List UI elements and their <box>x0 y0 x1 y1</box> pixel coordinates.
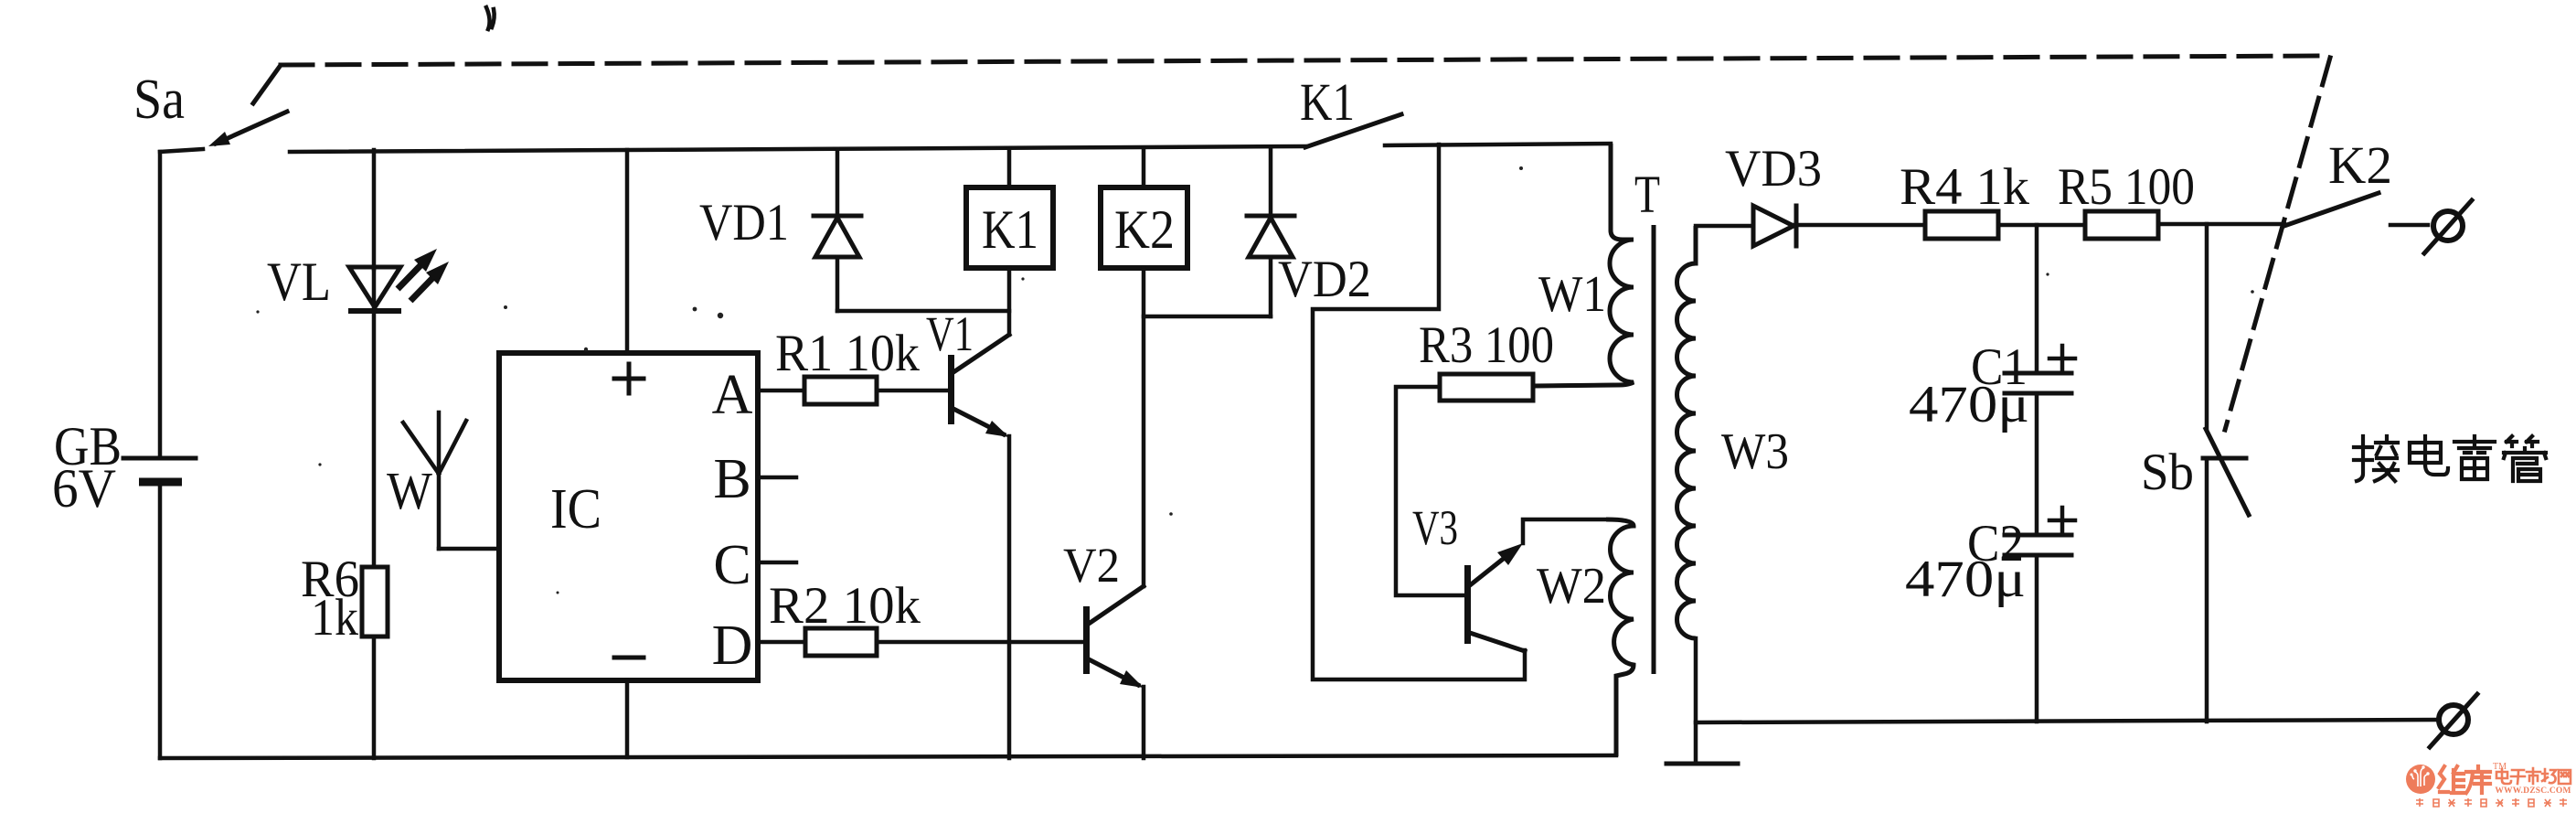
svg-text:K1: K1 <box>1300 72 1355 132</box>
winding W1 <box>1533 144 1634 386</box>
winding W3 <box>1666 226 1789 764</box>
switch Sa <box>133 69 287 152</box>
wire VD1 to K1 coil <box>837 309 1009 314</box>
label 接电雷管 (connect electric detonator) <box>2354 436 2546 481</box>
svg-text:WWW.DZSC.COM: WWW.DZSC.COM <box>2495 786 2571 796</box>
svg-text:W2: W2 <box>1537 558 1606 615</box>
IC U1 box <box>499 150 796 757</box>
relay coil K2 <box>1101 148 1271 586</box>
svg-text:A: A <box>712 364 753 426</box>
svg-text:D: D <box>712 615 753 677</box>
diode VD3 <box>1696 140 1925 246</box>
resistor R4 1k <box>1900 158 2085 239</box>
pin C stub <box>758 561 796 565</box>
svg-text:K1: K1 <box>982 199 1038 260</box>
resistor R3 100 <box>1396 316 1613 595</box>
svg-text:R5 100: R5 100 <box>2058 158 2195 216</box>
switch K1 contact <box>1300 72 1611 147</box>
transistor V3 <box>1412 500 1606 651</box>
diode VD1 <box>699 149 1009 311</box>
svg-text:1k: 1k <box>311 589 358 647</box>
svg-text:TM: TM <box>2493 762 2507 772</box>
capacitor C1 470u <box>1909 225 2075 535</box>
svg-text:IC: IC <box>550 478 601 540</box>
svg-text:R2 10k: R2 10k <box>769 577 921 635</box>
wire: bottom rail right <box>1696 720 2437 722</box>
relay coil K1 <box>966 148 1053 335</box>
terminal (bottom output) <box>2430 694 2477 747</box>
scan specks <box>256 166 2253 594</box>
battery GB <box>52 152 196 758</box>
LED VL <box>267 150 449 567</box>
resistor R5 100 <box>2058 158 2284 239</box>
antenna W <box>387 412 499 549</box>
switch K2 contact <box>2284 135 2428 226</box>
svg-text:470μ: 470μ <box>1909 376 2029 433</box>
dashed linkage wire <box>253 56 2330 430</box>
wire: bottom bus left <box>160 755 1616 758</box>
svg-text:R3 100: R3 100 <box>1419 316 1554 374</box>
svg-text:C: C <box>713 534 750 596</box>
wire K2 coil to VD2 <box>1144 315 1271 319</box>
svg-text:VD3: VD3 <box>1725 140 1822 198</box>
svg-text:VL: VL <box>267 251 331 312</box>
svg-text:R4 1k: R4 1k <box>1900 158 2030 216</box>
svg-text:B: B <box>713 448 750 510</box>
wire: main positive bus <box>290 146 1305 152</box>
svg-text:W1: W1 <box>1538 266 1606 323</box>
scan speck <box>486 7 495 29</box>
winding W2 <box>1537 519 1634 756</box>
transistor V2 <box>1063 538 1144 758</box>
svg-text:T: T <box>1634 165 1660 224</box>
svg-text:V3: V3 <box>1412 500 1458 555</box>
transistor V1 <box>926 306 1009 758</box>
switch Sb <box>2141 224 2249 722</box>
svg-text:K2: K2 <box>1114 199 1175 260</box>
watermark 电子市场网 <box>2496 768 2571 784</box>
svg-text:V1: V1 <box>926 306 974 361</box>
svg-text:Sa: Sa <box>133 69 185 131</box>
watermark 专业电子元器件交易网站 <box>2416 798 2567 807</box>
svg-text:K2: K2 <box>2328 135 2392 195</box>
resistor R2 10k <box>758 577 1084 656</box>
svg-text:W3: W3 <box>1721 423 1789 480</box>
svg-text:Sb: Sb <box>2141 444 2194 501</box>
resistor R6 1k <box>301 551 388 758</box>
svg-text:V2: V2 <box>1063 538 1120 593</box>
transformer core T <box>1634 165 1660 674</box>
diode VD2 <box>1247 148 1371 316</box>
svg-text:VD1: VD1 <box>699 194 789 251</box>
terminal (top output) <box>2424 200 2472 253</box>
watermark logo circle <box>2406 765 2435 794</box>
svg-text:470μ: 470μ <box>1905 551 2026 608</box>
wire: K1 contact down-branch <box>1313 144 1525 679</box>
svg-text:W: W <box>387 461 432 520</box>
svg-text:R1 10k: R1 10k <box>775 325 920 382</box>
svg-text:6V: 6V <box>52 458 116 519</box>
resistor R1 10k <box>758 325 949 404</box>
pin B stub <box>758 476 796 480</box>
capacitor C2 470u <box>1905 508 2075 722</box>
svg-text:VD2: VD2 <box>1278 251 1371 308</box>
watermark 维库 <box>2439 766 2490 793</box>
